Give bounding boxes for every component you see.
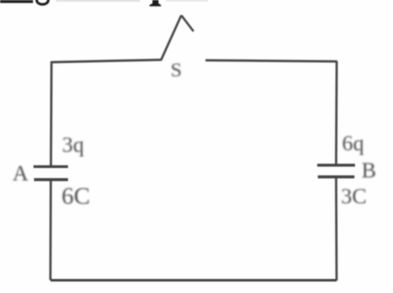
svg-text:3q: 3q: [62, 132, 84, 157]
capacitor A top plate: [34, 165, 69, 168]
svg-text:S: S: [171, 60, 182, 82]
switch S handle hook: [181, 15, 193, 31]
svg-text:B: B: [362, 158, 377, 183]
wire right vertical (bottom corner to capacitor B bottom plate): [335, 177, 338, 280]
wire left vertical (capacitor A bottom plate to bottom corner): [49, 180, 52, 280]
cropped heading text: g descender bowl: [37, 0, 49, 4]
capacitor B top plate: [317, 164, 355, 167]
cropped heading text: faint baseline remnants: [56, 0, 140, 2]
capacitor A bottom plate: [34, 178, 68, 181]
cropped heading text: p descender stem with serif foot: [150, 0, 162, 6]
svg-text:6C: 6C: [62, 183, 91, 210]
svg-text:A: A: [13, 161, 29, 186]
wire top-right horizontal: [206, 60, 338, 61]
capacitor B bottom plate: [318, 175, 355, 178]
cropped heading text bottom: bar: [0, 0, 33, 3]
svg-text:6q: 6q: [342, 131, 364, 156]
wire left vertical (corner to capacitor A top plate): [50, 61, 53, 166]
wire bottom horizontal: [50, 279, 336, 282]
cropped heading text: faint remnants right: [166, 0, 208, 1]
switch S blade: [161, 15, 181, 60]
svg-text:3C: 3C: [341, 184, 367, 209]
wire top-left horizontal: [51, 60, 161, 62]
wire right vertical (capacitor B top plate to top corner): [335, 61, 338, 165]
